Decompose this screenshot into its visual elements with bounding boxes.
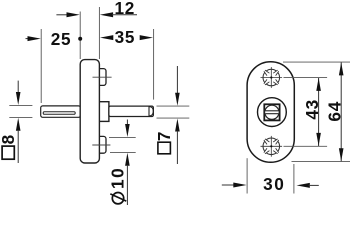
svg-text:30: 30 bbox=[263, 174, 285, 194]
inner slotted hub bbox=[265, 105, 279, 119]
bottom screw cap tab bbox=[96, 136, 106, 153]
ext line bottom bbox=[9, 116, 32, 118]
ext line top bbox=[109, 136, 136, 138]
lower stem + up arrow bbox=[175, 119, 180, 132]
neck boss bbox=[96, 102, 109, 122]
35 right arrow bbox=[140, 35, 153, 40]
ext line top bbox=[157, 105, 190, 107]
upper stem + down arrow bbox=[176, 66, 178, 94]
svg-text:8: 8 bbox=[0, 134, 18, 144]
ext line bottom bbox=[157, 117, 190, 119]
top screw symbol bbox=[261, 67, 283, 88]
ext line left bbox=[246, 158, 248, 193]
svg-text:10: 10 bbox=[108, 167, 128, 189]
ext line top (oval top) bbox=[283, 61, 350, 63]
extension line right face bbox=[98, 7, 100, 59]
25 dot terminator bbox=[78, 37, 82, 41]
ext line bottom (from bottom screw) bbox=[284, 145, 328, 147]
svg-text:7: 7 bbox=[154, 132, 174, 142]
up arrow bbox=[339, 62, 344, 75]
right spindle end chamfer bbox=[149, 107, 153, 117]
right spindle bbox=[109, 106, 153, 116]
label Ø10: diameter slash bbox=[110, 194, 126, 201]
label Ø10: diameter circle bbox=[112, 193, 123, 204]
centre turn element: outer circle bbox=[258, 98, 287, 127]
top tab centerline bbox=[93, 76, 112, 78]
top screw cap tab bbox=[96, 69, 106, 86]
ext line bottom bbox=[110, 151, 136, 153]
up arrow bbox=[316, 78, 321, 91]
25 outside arrow bbox=[26, 38, 30, 40]
left stub + arrow bbox=[222, 184, 234, 186]
down arrow bbox=[316, 133, 321, 146]
square symbol for 8 bbox=[2, 146, 14, 159]
svg-text:64: 64 bbox=[325, 101, 345, 122]
ext line top bbox=[9, 104, 32, 106]
svg-text:43: 43 bbox=[302, 99, 322, 120]
dim line bbox=[318, 78, 320, 146]
extension line left face bbox=[79, 12, 81, 60]
rose plate (side) bbox=[80, 60, 99, 163]
extension line spindle left end bbox=[40, 29, 42, 103]
left spindle bbox=[41, 106, 81, 117]
ext line right bbox=[293, 164, 295, 194]
upper stem + down arrow bbox=[126, 120, 128, 126]
down arrow bbox=[339, 148, 344, 161]
svg-text:35: 35 bbox=[115, 27, 136, 47]
bottom screw symbol bbox=[261, 136, 283, 157]
square symbol for 7 bbox=[158, 142, 171, 154]
lower stem + up arrow bbox=[125, 153, 130, 166]
35 left arrow bbox=[100, 35, 113, 40]
oval rose plate bbox=[247, 62, 294, 163]
svg-text:25: 25 bbox=[51, 29, 72, 49]
upper stem + down arrow bbox=[17, 81, 19, 93]
lower stem + up arrow bbox=[16, 118, 21, 131]
12 left stub + arrow bbox=[56, 14, 68, 16]
ext line top (from top screw) bbox=[284, 77, 328, 79]
left spindle slot bbox=[43, 112, 75, 115]
dim line bbox=[340, 63, 342, 162]
12 right arrow + line bbox=[100, 12, 113, 17]
svg-text:12: 12 bbox=[115, 0, 136, 18]
ext line bottom (oval bottom) bbox=[292, 161, 350, 163]
bottom tab centerline bbox=[92, 144, 110, 146]
right stub + arrow bbox=[297, 183, 310, 188]
extension line spindle right end bbox=[153, 29, 155, 100]
centre square hole bbox=[264, 104, 279, 120]
